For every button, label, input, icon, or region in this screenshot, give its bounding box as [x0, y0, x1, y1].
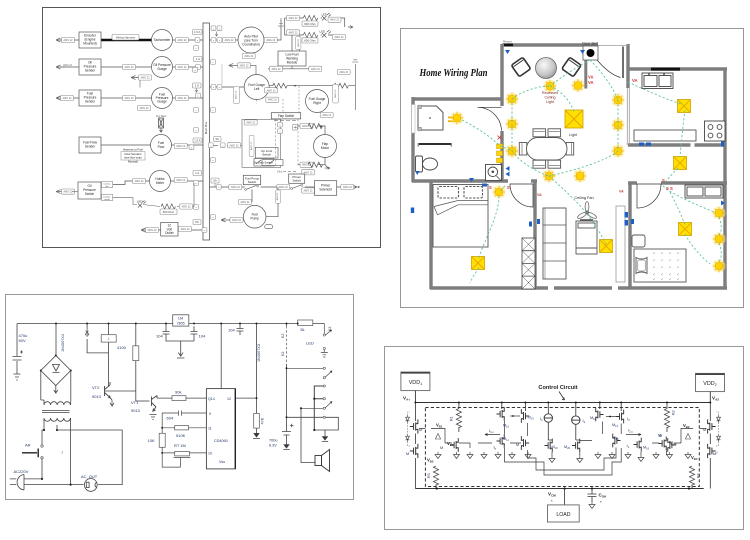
M12 mid [521, 436, 529, 450]
wall: bathroom top [413, 97, 503, 100]
door arc: bedroom1 [510, 184, 533, 207]
wall: bedroom1 left [429, 181, 432, 289]
towel bar [419, 143, 451, 145]
bridge rectifier [41, 356, 71, 394]
kitchen sink [642, 73, 673, 89]
svg-text:Q14: Q14 [208, 397, 215, 401]
M11 [497, 434, 505, 448]
gauge: Fuel Guage Right [306, 90, 329, 113]
chair left of round table [511, 57, 530, 76]
inter-row wire with label [136, 78, 151, 88]
box: Flap Switch [271, 113, 300, 119]
svg-text:AWG22: AWG22 [297, 38, 300, 46]
svg-text:104: 104 [156, 334, 163, 339]
wire module to LED rows [292, 35, 300, 51]
battery under K3 [323, 347, 325, 349]
door arc: bathroom [478, 107, 502, 131]
svg-text:Sender: Sender [85, 145, 96, 149]
svg-text:Right: Right [313, 101, 321, 105]
electrolytic 700u 6.3V [282, 424, 293, 448]
sender resistor right [334, 83, 348, 88]
arrow row1 [56, 38, 65, 42]
light: bedroom1 door [493, 186, 506, 199]
bias mosfet right [668, 438, 676, 452]
fuse 1A left [0, 0, 1, 1]
side table: bedroom2 [632, 235, 645, 247]
svg-text:Ceiling: Ceiling [545, 96, 556, 100]
sink: bathroom [486, 165, 502, 181]
svg-text:5A: 5A [215, 137, 219, 141]
svg-text:Home Wiring Plan: Home Wiring Plan [419, 67, 488, 79]
svg-text:50V: 50V [19, 338, 26, 343]
svg-text:K2: K2 [281, 334, 285, 338]
wall: bathroom bottom / bedroom1 top [412, 179, 537, 182]
left diodes [406, 416, 410, 423]
panel frame [385, 347, 744, 530]
lights: right column [612, 94, 625, 107]
svg-text:Main Bus: Main Bus [204, 121, 208, 134]
svg-text:Light: Light [569, 133, 578, 137]
thin link line [221, 64, 223, 84]
small boxes on dashed line [278, 122, 283, 127]
svg-text:9013: 9013 [92, 394, 102, 399]
door arc: bedroom2 [637, 184, 661, 208]
row5: hobbs [113, 181, 203, 184]
wall: central top [502, 43, 598, 46]
cabinet: bedroom2 top [685, 185, 723, 198]
wall: bedroom2 left [628, 183, 631, 288]
wall: outer right [723, 69, 726, 288]
row4: fuel flow [101, 144, 203, 146]
regulator LM7805 [173, 315, 189, 326]
stove [705, 121, 726, 141]
vertical label right [333, 84, 339, 103]
fuse row4 [193, 138, 202, 143]
svg-text:S: S [662, 178, 665, 183]
svg-text:700u: 700u [269, 439, 277, 443]
box: Oil Pressure Switch [78, 182, 101, 199]
svg-text:VA: VA [588, 80, 594, 85]
M17 [659, 437, 667, 451]
svg-text:10: 10 [208, 452, 212, 456]
lights: bedroom2 right wall [713, 207, 726, 220]
svg-text:LED: LED [137, 199, 142, 203]
capacitor 470u 50V [13, 351, 24, 361]
vertical label on module wire [296, 37, 301, 50]
pump: Fuel Pump [243, 205, 266, 228]
wall: central left [500, 44, 503, 182]
svg-text:6.3V: 6.3V [269, 444, 277, 448]
resistor 10K vertical [159, 433, 165, 447]
dashed guides [275, 119, 298, 167]
box: Primer Solenoid [315, 181, 337, 196]
light: recessed center right [572, 79, 585, 92]
cascode link bus [505, 448, 622, 476]
junction box: Light (big yellow) [565, 110, 583, 128]
panel frame [401, 29, 744, 308]
sofa [576, 220, 597, 254]
svg-text:1.5 A: 1.5 A [194, 30, 201, 34]
M13 [524, 403, 526, 412]
kitchen counter [634, 130, 696, 141]
M19 center-left [545, 439, 553, 453]
motor: Flap Motor [314, 135, 337, 158]
current source I1 [547, 403, 549, 414]
dashed control box [425, 408, 699, 487]
antenna symbol [278, 18, 284, 26]
wall: bedroom1 right [533, 181, 536, 288]
pump left arrow [229, 219, 244, 221]
svg-text:2 A: 2 A [195, 84, 199, 88]
box: Down Limit Switch [253, 159, 283, 167]
svg-text:47K: 47K [261, 417, 265, 424]
svg-text:K2: K2 [281, 352, 285, 356]
svg-text:Light: Light [546, 100, 554, 104]
vertical label in assembly [249, 135, 254, 156]
svg-text:AR: AR [25, 443, 31, 448]
svg-text:Ceiling Fan: Ceiling Fan [574, 196, 593, 200]
fuel pump row [210, 186, 358, 188]
window: central top black band [504, 44, 513, 47]
svg-text:M: M [516, 443, 519, 447]
bottom rail [415, 488, 703, 490]
switch: outside left [411, 208, 414, 214]
resistor R2 [666, 403, 668, 409]
fuse 5A flap [214, 137, 222, 142]
wire: teal dashed runs [462, 60, 721, 283]
box: Fuel Flow Sender [79, 137, 101, 153]
arrow + label left of switch [56, 190, 65, 194]
svg-text:Sender: Sender [85, 100, 96, 104]
top rail [415, 391, 710, 403]
resistor 47K [254, 413, 260, 428]
svg-text:AWG 22: AWG 22 [63, 64, 73, 67]
wire: relay branch [87, 324, 108, 387]
left vertical to contacts [286, 364, 288, 431]
mattress dots [653, 253, 679, 281]
svg-text:1N4007X4: 1N4007X4 [61, 334, 65, 352]
svg-text:Sender: Sender [85, 69, 96, 73]
svg-text:7805: 7805 [177, 321, 185, 325]
svg-text:AWG 22: AWG 22 [235, 90, 238, 99]
fuse 1A row2 [194, 57, 203, 62]
M18 [599, 403, 601, 410]
wire row1 encoder-tach [60, 39, 203, 41]
shower [418, 105, 443, 131]
svg-text:Meter: Meter [156, 181, 165, 185]
row6: 12V outlet [146, 229, 203, 231]
svg-text:600 Ohm: 600 Ohm [304, 39, 316, 43]
junction box: kitchen [678, 100, 691, 113]
gauge: Fuel Pressure Guage [152, 88, 173, 109]
box: Fuel Pump Switch [243, 175, 260, 184]
M20 center [572, 439, 580, 453]
gauge: Auto Pilot [238, 27, 264, 53]
fuel gauge left feed [210, 86, 245, 88]
relay contact pair 1 [323, 367, 325, 369]
current source I2 [575, 403, 577, 416]
chair right of round table [562, 57, 581, 76]
svg-text:1.5 A: 1.5 A [194, 139, 201, 143]
svg-text:Mounted): Mounted) [83, 42, 96, 46]
wardrobe with X [522, 238, 535, 289]
box: VDD2 [696, 373, 725, 391]
small boxes right of switch [102, 182, 113, 188]
door leaf central top [622, 47, 624, 79]
svg-text:Guage: Guage [157, 67, 167, 71]
main bus bar [203, 23, 210, 240]
wall stub below door bell [584, 58, 587, 89]
label under gauge [138, 105, 151, 110]
door header central top [598, 45, 628, 47]
wires mid connections [459, 421, 667, 456]
top-right LED row B [285, 18, 333, 35]
svg-text:VA: VA [537, 193, 542, 197]
svg-text:Door Bell: Door Bell [582, 42, 598, 46]
svg-text:Module: Module [287, 61, 298, 65]
light: bottom center [543, 170, 556, 183]
svg-text:R1: R1 [450, 416, 454, 421]
caps 104 beside 7805 [163, 324, 198, 359]
wire row3 [60, 97, 203, 99]
svg-text:VA: VA [632, 78, 638, 83]
gauge: Fuel Flow [151, 135, 172, 156]
svg-text:Manual): Manual) [128, 160, 138, 164]
wire row2 [60, 66, 203, 68]
IC CD4060 [206, 389, 235, 469]
svg-text:Left: Left [254, 87, 259, 91]
svg-text:R2: R2 [672, 410, 676, 415]
LED branch [113, 198, 160, 207]
resistor 510K [175, 426, 189, 430]
svg-text:1 A: 1 A [196, 57, 200, 61]
gauge: Tachometer [152, 30, 173, 51]
svg-text:Recessed: Recessed [542, 91, 558, 95]
svg-text:BL: BL [301, 328, 305, 332]
door arc: central top [597, 60, 621, 78]
left bracket vertical [162, 413, 180, 467]
wall: bathroom left [411, 97, 414, 182]
box: Low Fuel Warning Module [278, 51, 306, 66]
svg-text:Switch: Switch [248, 180, 257, 184]
svg-text:Guage: Guage [157, 100, 167, 104]
lights: left column [506, 93, 519, 106]
ground triangles row [467, 452, 473, 459]
fuse 1A row5 [193, 171, 202, 176]
svg-text:LOAD: LOAD [556, 512, 570, 518]
svg-text:J: J [108, 337, 110, 341]
M10 cascode [501, 403, 503, 410]
extra bus boxes [194, 46, 199, 51]
VT2 emitter drop [110, 400, 114, 406]
shower light dashes [448, 117, 453, 119]
svg-text:Wiring Harness: Wiring Harness [116, 35, 136, 39]
svg-text:Resort: Resort [503, 40, 512, 44]
wire label [62, 37, 75, 42]
left outer transistor M2 [410, 444, 418, 458]
right drop wire [352, 60, 358, 110]
M14 [620, 403, 622, 412]
bookshelf [543, 208, 566, 279]
wire: left cap branch [16, 324, 18, 375]
below-module labels [270, 66, 283, 71]
svg-text:4100: 4100 [117, 345, 127, 350]
svg-text:T: T [600, 500, 602, 504]
svg-text:Solenoid: Solenoid [319, 188, 332, 192]
resistor R1 [458, 403, 460, 409]
svg-text:Switch: Switch [85, 192, 95, 196]
svg-text:Tachometer: Tachometer [154, 38, 172, 42]
svg-text:Ch-L: Ch-L [277, 170, 283, 174]
speaker [301, 408, 315, 462]
bottom rail [24, 459, 84, 485]
right outer transistor M5 [709, 403, 711, 422]
transistor VT2 9013 [105, 382, 113, 400]
wire: 4100 branch [135, 324, 137, 402]
svg-text:1 A: 1 A [195, 171, 199, 175]
svg-text:AWG 22: AWG 22 [334, 89, 337, 98]
fuse 5A pump [211, 178, 219, 183]
K2 dashed contact line [286, 326, 288, 364]
wiring harness thick wire [101, 39, 152, 41]
fuse 2A [193, 83, 202, 88]
red X on wall [498, 136, 502, 140]
svg-text:LM: LM [178, 317, 183, 321]
svg-text:AC220V: AC220V [14, 469, 29, 474]
wire bus to autopilot [210, 26, 282, 40]
svg-text:1N4007X3: 1N4007X3 [257, 344, 261, 362]
arrow label row [229, 63, 238, 67]
svg-text:Outlet: Outlet [165, 231, 174, 235]
flap assembly box [242, 119, 281, 167]
panel frame [6, 295, 354, 500]
box: Primer Switch [289, 174, 305, 183]
bed: bedroom2 [634, 249, 686, 282]
svg-text:Key West: Key West [156, 115, 167, 118]
assembly feed from bus [210, 144, 243, 146]
svg-text:Flow: Flow [158, 145, 165, 149]
wall: kitchen bottom [628, 143, 725, 146]
svg-text:VDD2: VDD2 [703, 381, 716, 387]
flap motor feed [298, 126, 325, 135]
box: 12 Volt Outlet [161, 223, 178, 237]
svg-text:600 Ohm: 600 Ohm [163, 210, 175, 214]
junction box: bedroom1 [472, 257, 485, 270]
right outer transistor M6 [708, 444, 716, 458]
bias mosfet left [451, 438, 459, 452]
light: bathroom [451, 112, 464, 125]
vertical label left of FGL [234, 87, 240, 104]
svg-text:90k: 90k [175, 389, 181, 394]
gauge: Oil Pressure Guage [152, 57, 173, 78]
box: LOAD [564, 489, 566, 505]
svg-text:VDD1: VDD1 [409, 380, 422, 386]
wire: bridge feed [55, 324, 57, 356]
transistor VT1 9013 [152, 396, 158, 412]
svg-text:S: S [507, 185, 510, 190]
box: Oil Pressure Sender [79, 59, 101, 75]
svg-text:VT1: VT1 [131, 400, 139, 405]
svg-text:K3: K3 [328, 327, 332, 331]
wire label right of tach [176, 37, 189, 42]
gauge: Fuel Guage Left [244, 75, 269, 100]
drop to fuel pump [252, 187, 278, 217]
walls [412, 44, 727, 289]
fuse 1.5A [193, 30, 203, 35]
window: kitchen top black band [651, 68, 680, 71]
bus top right boxes [211, 26, 216, 31]
cap 104 mid [237, 324, 244, 336]
svg-text:M: M [440, 446, 443, 450]
flap bottom row [298, 158, 328, 169]
pin9 cap 604 [162, 411, 206, 416]
svg-text:CD4060: CD4060 [214, 439, 228, 443]
svg-text:Control Circuit: Control Circuit [538, 385, 577, 391]
svg-text:M: M [658, 434, 661, 438]
wire: VT2 base [105, 390, 136, 392]
svg-text:VA: VA [588, 75, 594, 80]
hall closet tall rect [616, 206, 625, 282]
capacitor COH [588, 489, 597, 503]
svg-text:604: 604 [167, 416, 174, 421]
svg-text:104: 104 [228, 328, 235, 333]
svg-text:Pump: Pump [251, 217, 260, 221]
junction box: bedroom2 [679, 223, 692, 236]
sender resistor left [269, 85, 355, 87]
M16 [634, 438, 642, 452]
link lines [257, 86, 299, 113]
svg-text:low: low [105, 186, 109, 188]
svg-text:Switch: Switch [292, 179, 301, 183]
svg-text:VA: VA [619, 190, 624, 194]
relay contact pair 2 [323, 407, 325, 409]
connector above fuel flow [159, 118, 164, 132]
resistor R3 [433, 466, 438, 485]
left outer transistor M1 [414, 403, 416, 422]
svg-text:J: J [61, 450, 63, 455]
wall: bottom [430, 286, 727, 289]
svg-text:5A: 5A [213, 179, 217, 183]
wire VB1 row [419, 429, 452, 444]
svg-text:AWG 22: AWG 22 [250, 141, 253, 150]
wire: K2 line [286, 324, 288, 327]
light: hall second [574, 170, 587, 183]
wire: pin12 to 47K [235, 324, 256, 438]
resistor 600 Ohm [161, 204, 175, 209]
svg-text:Motor: Motor [321, 146, 330, 150]
window: bathroom left wall [412, 105, 415, 134]
svg-text:LED: LED [306, 341, 314, 346]
svg-text:104: 104 [199, 334, 206, 339]
svg-text:VT2: VT2 [92, 385, 100, 390]
label: Wiring Harness [112, 34, 139, 40]
resistor 90k [172, 396, 186, 401]
round table [536, 58, 557, 79]
box: Fuel Pressure Sender [79, 90, 101, 106]
wall: central right thin glass [627, 88, 629, 145]
svg-text:RT 1M: RT 1M [174, 443, 186, 448]
bracket contacts [323, 385, 325, 387]
svg-text:9: 9 [209, 412, 211, 416]
svg-text:510K: 510K [176, 433, 186, 438]
wire J loop [57, 425, 122, 485]
top-right LED row A [285, 18, 353, 27]
svg-text:Switch: Switch [262, 153, 271, 157]
svg-text:S: S [489, 185, 492, 190]
wire: VT1 base [136, 400, 150, 402]
svg-text:12: 12 [227, 397, 231, 401]
diode on relay branch [85, 329, 89, 337]
